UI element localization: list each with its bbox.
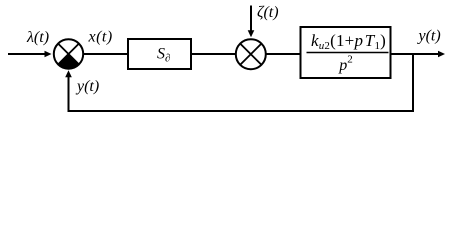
wire: feedback left vertical segment with up arrow xyxy=(65,70,72,112)
wire: feedback bottom horizontal segment xyxy=(68,110,415,112)
wire: junction U1 to block Sd xyxy=(84,53,129,55)
svg-text:y(t): y(t) xyxy=(417,28,441,45)
svg-text:x(t): x(t) xyxy=(88,29,113,46)
wire: output y(t) xyxy=(391,51,445,58)
wire: input lambda(t) xyxy=(8,51,52,58)
block Sd xyxy=(128,39,191,69)
block W: k_u2(1+pT1)/p^2 xyxy=(301,27,391,78)
summing junction U2 xyxy=(236,39,266,69)
wire: junction U2 to block W xyxy=(266,53,300,55)
svg-text:ζ(t): ζ(t) xyxy=(257,4,279,21)
svg-text:y(t): y(t) xyxy=(75,78,99,95)
wire: disturbance zeta(t) input xyxy=(248,6,255,38)
summing junction U1 (comparator, bottom sector filled) xyxy=(54,39,83,68)
wire: feedback right vertical segment xyxy=(412,54,414,111)
svg-text:λ(t): λ(t) xyxy=(26,29,49,46)
wire: block Sd to junction U2 xyxy=(191,53,236,55)
